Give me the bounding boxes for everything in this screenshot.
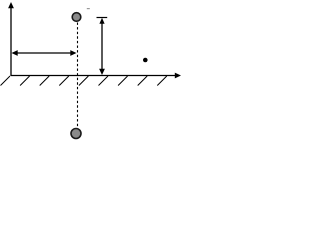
dashed vertical line connecting balls (77, 23, 79, 129)
small gray tick mark top right of upper ball (87, 8, 90, 9)
y-axis (vertical axis with up arrow) (8, 2, 14, 76)
ground hatching (1, 76, 167, 86)
vertical dimension arrow with top cap bar (97, 18, 108, 76)
ball below ground (71, 129, 81, 139)
horizontal double-headed dimension arrow (12, 50, 77, 56)
ball above ground (72, 13, 81, 22)
x-axis ground line with right arrow (11, 73, 181, 79)
black dot (point particle) (143, 58, 148, 63)
